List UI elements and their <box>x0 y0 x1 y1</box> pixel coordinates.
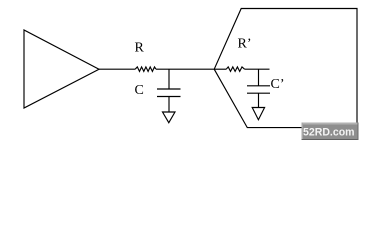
ground (below C) <box>163 112 176 123</box>
wire: node to resistor R' <box>214 68 226 70</box>
wire: capacitor C' top lead <box>258 69 260 86</box>
ground (below C') <box>252 108 264 120</box>
svg-text:C’: C’ <box>271 77 285 92</box>
wire: resistor R to receiver node <box>156 68 214 70</box>
svg-text:R: R <box>135 41 145 56</box>
resistor R' <box>226 67 244 72</box>
svg-text:C: C <box>135 83 144 98</box>
wire: buffer output to resistor R <box>99 68 135 70</box>
watermark 52RD.com <box>302 123 359 141</box>
receiver outline (pentagon) <box>214 9 357 128</box>
capacitor C <box>157 89 181 97</box>
wire: capacitor C' bottom lead <box>258 93 260 107</box>
svg-text:52RD.com: 52RD.com <box>303 127 355 139</box>
wire: resistor R' to termination end <box>245 68 270 70</box>
resistor R <box>135 67 156 72</box>
wire: capacitor C bottom lead <box>168 97 170 113</box>
svg-text:R’: R’ <box>238 37 252 52</box>
capacitor C' <box>247 86 270 93</box>
driver buffer U1 (triangle) <box>24 30 99 108</box>
wire: capacitor C top lead <box>168 69 170 89</box>
